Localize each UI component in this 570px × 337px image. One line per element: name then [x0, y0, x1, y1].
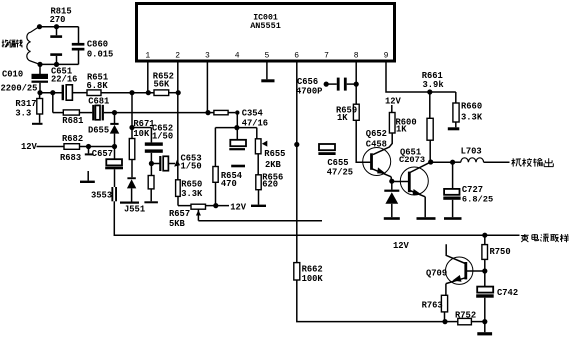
diode D651 (J551)	[120, 177, 145, 214]
transistor Q651 C2073	[399, 148, 436, 220]
resistor R661 3.9k	[422, 71, 445, 162]
node C654	[234, 125, 239, 130]
svg-text:AN5551: AN5551	[250, 21, 281, 31]
resistor below C652	[144, 164, 158, 204]
capacitor C656 4700P	[296, 77, 356, 97]
node yoke top-mid	[54, 24, 59, 29]
resistor R317 3.3	[15, 93, 42, 125]
wire R681 branch drop	[52, 93, 54, 113]
wire main rail left	[38, 92, 62, 94]
svg-text:6.8/25: 6.8/25	[462, 195, 493, 205]
wire Q651 base	[392, 181, 409, 183]
svg-text:Q709: Q709	[426, 268, 447, 278]
svg-text:C458: C458	[366, 139, 387, 149]
capacitor C742	[476, 271, 518, 322]
label 场偏转 (field deflection)	[2, 40, 23, 48]
label R815 270	[50, 7, 72, 26]
node D655 junction	[112, 110, 117, 115]
capacitor C657	[92, 147, 123, 188]
potentiometer R657 5KB	[169, 204, 206, 229]
svg-text:22/16: 22/16	[51, 75, 77, 85]
svg-text:1K: 1K	[396, 125, 407, 135]
node C657 junction	[112, 144, 117, 149]
node rail pin1	[146, 90, 151, 95]
svg-text:1: 1	[145, 52, 150, 61]
capacitor C651 22/16	[51, 66, 77, 100]
wire C652 bottom lead	[150, 153, 152, 164]
wire yoke top	[38, 26, 79, 28]
svg-text:Q652: Q652	[366, 129, 387, 139]
resistor R659 1K	[336, 104, 359, 123]
svg-text:8: 8	[354, 52, 359, 61]
svg-text:C354: C354	[242, 109, 264, 119]
svg-text:3.3K: 3.3K	[461, 112, 483, 122]
svg-text:3.3K: 3.3K	[181, 189, 203, 199]
svg-text:620: 620	[262, 179, 278, 189]
node Q652 emitter	[389, 179, 394, 184]
wire pin9 to right rail	[386, 62, 456, 92]
wire R657 wiper run	[198, 220, 322, 222]
svg-text:3.9k: 3.9k	[423, 80, 445, 90]
svg-text:1/50: 1/50	[181, 162, 202, 172]
wire Q709 base	[467, 270, 485, 272]
connector plug upper half	[50, 27, 62, 38]
wire pin3 stub	[206, 62, 208, 113]
label 12V mid	[230, 202, 247, 212]
node R661 top	[427, 89, 432, 94]
label 12V upper	[385, 96, 402, 106]
resistor R763	[422, 295, 448, 321]
svg-text:12V: 12V	[393, 241, 410, 251]
svg-text:C681: C681	[88, 96, 109, 106]
wire pin2 column	[177, 62, 179, 180]
resistor R682	[62, 134, 83, 149]
svg-text:4700P: 4700P	[296, 87, 322, 97]
svg-text:12V: 12V	[21, 142, 38, 152]
svg-text:47/25: 47/25	[327, 167, 353, 177]
resistor R652 56K	[153, 72, 174, 96]
svg-text:2200/25: 2200/25	[1, 84, 38, 94]
svg-text:0.015: 0.015	[87, 50, 113, 60]
node Q709 base	[482, 268, 487, 273]
wire rail C651-R651	[73, 92, 87, 94]
node Q651 collector	[428, 159, 433, 164]
svg-text:C860: C860	[87, 39, 108, 49]
svg-text:J551: J551	[124, 205, 145, 215]
wire D655 column to beam rail	[114, 201, 519, 235]
node C652 junction	[129, 125, 134, 130]
svg-text:270: 270	[50, 15, 66, 25]
deflection coil (yoke winding)	[27, 27, 40, 65]
node C653 junction	[149, 161, 154, 166]
svg-text:C2073: C2073	[399, 155, 425, 165]
resistor R651 6.8K	[87, 73, 109, 96]
wire 12V mid rail	[178, 205, 229, 207]
transistor Q709	[426, 244, 473, 295]
wire R671 column top	[131, 93, 133, 128]
svg-text:7: 7	[324, 52, 329, 61]
capacitor 3553 in series	[91, 187, 117, 201]
inductor L703	[453, 147, 510, 163]
wire pin6 column	[296, 62, 298, 263]
svg-text:1/50: 1/50	[152, 131, 173, 141]
capacitor C681	[88, 96, 109, 120]
svg-text:R752: R752	[455, 311, 476, 321]
wire C860 branch top	[78, 27, 80, 43]
node bottom R763	[442, 319, 447, 324]
node rail R681-branch	[50, 90, 55, 95]
diode D653	[384, 181, 400, 220]
node rail C010	[37, 90, 42, 95]
svg-text:C727: C727	[462, 185, 483, 195]
node pin8 C656	[354, 82, 359, 87]
wire node horizontal	[215, 127, 256, 129]
node C727	[450, 160, 455, 165]
svg-text:C742: C742	[497, 288, 518, 298]
resistor R650 3.3K	[176, 179, 203, 199]
svg-text:R655: R655	[264, 149, 285, 159]
transistor Q652 C458	[363, 129, 392, 181]
connector plug lower half	[50, 53, 62, 64]
op-amp/IC U1 IC001 AN5551 body	[137, 4, 395, 62]
node rail R750	[482, 233, 487, 238]
capacitor C860	[72, 39, 114, 59]
svg-text:C656: C656	[297, 77, 318, 87]
wire rail R651-pin1	[101, 92, 154, 94]
svg-text:R662: R662	[302, 264, 323, 274]
svg-text:3553: 3553	[91, 190, 112, 200]
svg-text:R660: R660	[461, 102, 482, 112]
resistor R656 620	[251, 154, 283, 207]
svg-text:1K: 1K	[337, 113, 348, 123]
resistor R654 470	[213, 128, 243, 206]
wire pin8 to Q652 base	[356, 120, 370, 162]
node R683 junction	[86, 144, 91, 149]
node rail pin2	[176, 90, 181, 95]
svg-text:2KB: 2KB	[265, 160, 282, 170]
ground bottom right	[477, 322, 492, 336]
label R683	[60, 153, 81, 163]
svg-text:9: 9	[384, 52, 389, 61]
node bottom C742	[482, 319, 487, 324]
wire C681 to pin3 node	[104, 112, 208, 114]
wire pin8 column	[355, 62, 357, 104]
wire pin2 column bottom	[177, 196, 179, 205]
svg-text:6: 6	[294, 52, 299, 61]
capacitor C653 1/50	[151, 154, 201, 172]
svg-text:L703: L703	[461, 147, 482, 157]
wire R662 bottom loop	[297, 280, 445, 322]
wire C354-node drop	[236, 113, 238, 128]
capacitor R683 branch upper stub	[85, 147, 94, 156]
resistor R681	[62, 110, 83, 126]
svg-text:C657: C657	[92, 149, 113, 159]
svg-text:R650: R650	[181, 179, 202, 189]
wire yoke bottom	[39, 63, 79, 65]
resistor R750	[482, 235, 511, 271]
node yoke bottom-mid	[54, 62, 59, 67]
node rail R671-col	[129, 90, 134, 95]
svg-text:R763: R763	[422, 300, 443, 310]
svg-text:R683: R683	[60, 153, 81, 163]
node yoke top-left	[37, 24, 42, 29]
capacitor C354 47/16 series element	[208, 109, 268, 129]
label 12V bottom	[393, 241, 410, 251]
svg-text:56K: 56K	[154, 79, 171, 89]
wire R681-C681	[79, 112, 92, 114]
svg-text:C010: C010	[2, 70, 23, 80]
svg-text:100K: 100K	[302, 274, 324, 284]
wire R600 to Q652 collector	[373, 133, 392, 155]
svg-text:2: 2	[175, 52, 180, 61]
label 12V left	[21, 142, 38, 152]
svg-text:R682: R682	[62, 134, 83, 144]
wire C860 branch bottom	[78, 51, 80, 65]
svg-text:3: 3	[205, 52, 210, 61]
svg-text:470: 470	[221, 179, 237, 189]
svg-text:R681: R681	[62, 116, 83, 126]
svg-text:R317: R317	[15, 99, 36, 109]
wire R682 to D655 column	[80, 146, 115, 148]
pin numbers 1-9 of IC001	[145, 52, 388, 61]
resistor R662 100K	[294, 263, 324, 284]
capacitor C010 2200/25	[1, 64, 49, 93]
wire collector node to L703	[431, 161, 453, 163]
svg-text:6.8K: 6.8K	[87, 81, 109, 91]
resistor R671 10K	[129, 119, 154, 177]
svg-text:4: 4	[235, 52, 240, 61]
wire C652 top lead	[132, 128, 151, 143]
ground at pin5	[261, 62, 274, 82]
resistor R752	[445, 311, 485, 325]
svg-text:12V: 12V	[230, 202, 247, 212]
label 枕校输出 (pincushion output)	[512, 158, 554, 166]
capacitor C655 47/25	[318, 144, 353, 177]
svg-text:R657: R657	[169, 209, 190, 219]
ground below R683	[80, 171, 95, 183]
svg-text:3.3: 3.3	[15, 109, 31, 119]
label 束电流取样 (beam current sampling)	[521, 234, 569, 242]
node 12V mid	[213, 203, 218, 208]
svg-text:12V: 12V	[385, 96, 402, 106]
wire pin1 stub	[147, 62, 149, 93]
svg-text:R750: R750	[490, 247, 511, 257]
capacitor C727 6.8/25	[443, 162, 493, 220]
node pin3 junction	[205, 110, 210, 115]
svg-text:5: 5	[264, 52, 269, 61]
svg-text:5KB: 5KB	[169, 219, 186, 229]
svg-text:D655: D655	[88, 125, 109, 135]
wire 12V to R682	[37, 146, 65, 148]
capacitor C654	[229, 128, 246, 168]
capacitor C652 1/50	[145, 123, 173, 152]
resistor R600 1K	[389, 105, 416, 135]
resistor R660 3.3K	[448, 92, 483, 130]
node yoke bottom-left	[37, 62, 42, 67]
node pin6 R655-wiper	[294, 142, 299, 147]
svg-text:10K: 10K	[133, 129, 150, 139]
resistor R655 2KB (pot)	[255, 128, 285, 170]
wire R681 left lead	[53, 112, 64, 114]
diode D655	[88, 113, 119, 147]
wire rail R652-pin2	[169, 92, 179, 94]
